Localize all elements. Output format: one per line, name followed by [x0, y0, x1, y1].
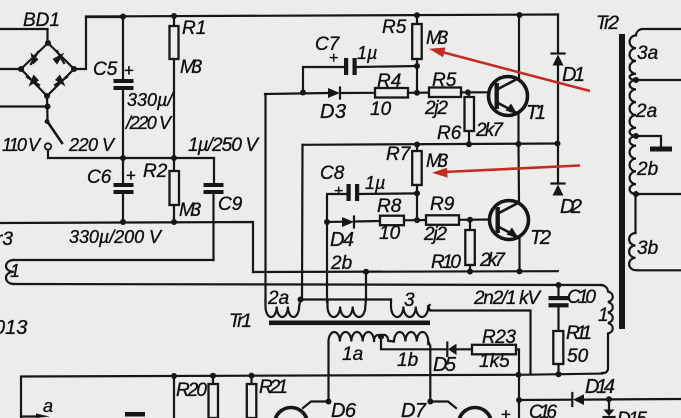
svg-text:C9: C9	[218, 194, 243, 215]
wire: bridge right node up to + rail	[74, 17, 122, 69]
osc1 emitter rail	[303, 144, 558, 145]
wire: tap to winding 2b right end	[365, 272, 367, 300]
resistor R5 M3 (vertical)	[416, 15, 418, 24]
svg-text:1µ/250 V: 1µ/250 V	[188, 135, 260, 156]
capacitor C6 330u/200V	[122, 158, 124, 183]
diode D4	[342, 217, 354, 227]
wire D3 to R4	[340, 92, 375, 94]
svg-text:C6: C6	[87, 167, 112, 188]
switch 110V/220V lever	[47, 121, 62, 143]
resistor R4 10	[375, 88, 408, 98]
wire: AC input mid from Tr3 to bridge left node	[0, 68, 21, 70]
svg-text:R11: R11	[566, 323, 592, 344]
svg-text:C10: C10	[567, 287, 596, 308]
osc2 emitter rail	[253, 270, 558, 273]
resistor R23 1k5	[472, 345, 516, 355]
oscillator 2: capacitor C8 1u	[327, 194, 347, 222]
svg-text:D7: D7	[401, 400, 427, 418]
svg-text:R21: R21	[259, 377, 288, 398]
resistor R1 M3	[171, 13, 177, 19]
svg-text:M3: M3	[179, 200, 201, 221]
svg-text:C5: C5	[93, 59, 118, 80]
diode D3	[328, 88, 340, 98]
resistor R2 M3	[173, 158, 175, 171]
svg-text:2k7: 2k7	[479, 250, 506, 271]
transistor (bottom mid, cut)	[459, 408, 492, 418]
svg-text:r3: r3	[0, 229, 13, 250]
svg-text:R7: R7	[386, 144, 412, 165]
svg-text:330µ/: 330µ/	[127, 90, 174, 110]
transformer Tr2 core	[619, 34, 625, 329]
resistor R9 2j2	[426, 215, 459, 225]
wire to diode D4	[327, 221, 342, 224]
svg-text:D2: D2	[560, 196, 582, 218]
wire: switch to C6/R2 rail	[48, 150, 214, 158]
resistor R11 50	[553, 331, 563, 364]
capacitor C16	[518, 375, 520, 418]
wire: winding 3 to bottom rail	[428, 306, 530, 374]
svg-text:Tr2: Tr2	[596, 13, 619, 34]
svg-text:1a: 1a	[342, 344, 363, 365]
diode D14	[571, 393, 573, 406]
svg-text:D5: D5	[433, 354, 457, 376]
winding 1 left curl	[6, 260, 14, 284]
wire down to 3b	[634, 194, 636, 233]
svg-text:1: 1	[598, 305, 609, 326]
node: R4/R5/C7 junction	[414, 90, 420, 96]
Tr2 winding 2a	[630, 80, 636, 136]
svg-text:220 V: 220 V	[68, 135, 116, 155]
node: C6 bottom on lower rail	[120, 219, 126, 225]
svg-text:a: a	[43, 396, 53, 416]
svg-text:D4: D4	[330, 229, 354, 251]
svg-text:1: 1	[10, 261, 20, 281]
wire: bridge bottom node to switch	[46, 96, 49, 120]
svg-text:/220 V: /220 V	[124, 113, 173, 133]
bridge rectifier BD1	[18, 40, 77, 99]
node on top rail for R5	[414, 12, 420, 18]
ground	[650, 147, 672, 152]
svg-text:D15: D15	[617, 409, 647, 418]
svg-text:2k7: 2k7	[475, 120, 504, 141]
wire: T2 emitter down	[518, 237, 520, 272]
switch contact circle	[45, 143, 51, 149]
svg-text:+: +	[124, 61, 134, 80]
node: D3/C7 junction	[300, 90, 306, 96]
winding 1 of Tr2 hairpin top edge	[13, 259, 214, 261]
svg-text:Tr1: Tr1	[229, 311, 252, 332]
node: 2a right / link junction	[298, 297, 304, 303]
node: C8 left / D4 junction	[324, 219, 330, 225]
link wire 2a-2b-3	[301, 298, 392, 300]
svg-text:2b: 2b	[636, 159, 658, 180]
wire: T2 collector up to osc1 emitter rail	[517, 144, 520, 202]
svg-text:+: +	[329, 50, 338, 67]
svg-text:1µ: 1µ	[357, 43, 377, 63]
svg-text:D14: D14	[585, 376, 615, 398]
wire: T1 collector to + rail	[518, 15, 520, 78]
svg-text:M3: M3	[180, 57, 202, 78]
resistor R6 2k7	[468, 92, 470, 97]
svg-text:D1: D1	[562, 64, 585, 86]
diode D5	[446, 343, 448, 357]
Tr1 winding 1b	[381, 332, 428, 344]
red arrow 1	[429, 48, 590, 92]
svg-text:R23: R23	[482, 327, 516, 348]
svg-text:50: 50	[567, 346, 589, 367]
svg-text:R9: R9	[430, 194, 455, 215]
wire: 2b winding up to D4 node	[326, 222, 328, 302]
transistor T1	[489, 77, 528, 116]
svg-text:3: 3	[404, 290, 415, 311]
svg-text:2a: 2a	[267, 288, 289, 309]
svg-text:R8: R8	[377, 196, 402, 217]
svg-text:2j2: 2j2	[423, 224, 447, 245]
wire: T1 emitter down to osc1 emitter rail	[517, 113, 519, 144]
wire: 1b right end down	[428, 342, 430, 402]
transistor T2	[490, 201, 529, 240]
svg-text:R5: R5	[432, 70, 457, 91]
svg-text:3b: 3b	[637, 238, 658, 259]
Tr2 winding 3a	[630, 29, 681, 80]
svg-text:D6: D6	[331, 400, 357, 418]
node: T2 base / R10 top	[467, 217, 473, 223]
wire: feedback from winding 2a up to D3	[264, 94, 266, 302]
svg-text:2a: 2a	[635, 101, 657, 122]
node + wire: unknown drop at x174	[171, 373, 177, 379]
capacitor C10 2n2/1kV	[556, 282, 562, 288]
svg-text:+: +	[501, 405, 511, 418]
svg-text:R10: R10	[431, 252, 461, 273]
resistor R21	[249, 373, 255, 379]
wire: rail corner down to winding 2a right	[301, 145, 304, 299]
svg-text:D3: D3	[320, 101, 346, 123]
resistor R10 2k7	[469, 220, 471, 230]
resistor R7 M3 (vertical)	[416, 145, 418, 152]
node: C5 top	[120, 14, 126, 20]
svg-text:10: 10	[379, 223, 401, 244]
svg-text:R5: R5	[382, 17, 407, 38]
svg-text:C8: C8	[320, 163, 345, 184]
svg-text:013: 013	[0, 317, 27, 339]
node: bridge bottom junction	[45, 104, 51, 110]
svg-text:R6: R6	[437, 123, 462, 144]
svg-text:R2: R2	[143, 161, 168, 182]
node: R2 bottom	[171, 219, 177, 225]
Tr2 winding 3b	[629, 233, 681, 270]
svg-text:3a: 3a	[637, 43, 658, 64]
capacitor C9 1u/250V	[213, 158, 215, 183]
red arrow 2	[432, 166, 580, 178]
capacitor C5 330u/220V	[122, 17, 124, 79]
node: centre tap to ground	[633, 133, 639, 139]
svg-text:M3: M3	[426, 28, 448, 49]
svg-text:10: 10	[370, 99, 392, 120]
partial capacitor plate bottom left	[125, 412, 145, 417]
svg-text:2n2/1 kV: 2n2/1 kV	[473, 288, 542, 309]
svg-text:330µ/200 V: 330µ/200 V	[69, 227, 163, 247]
oscillator 1: capacitor C7 1u	[303, 67, 344, 92]
bottom rail	[21, 374, 602, 418]
wire: C7 node down	[416, 66, 418, 92]
wire D5 to R23	[457, 348, 473, 350]
wire: D3 line	[265, 93, 328, 94]
node: 1a/1b junction	[378, 334, 384, 340]
winding 1 right coil (Tr2 primary)	[601, 285, 613, 373]
transformer Tr1 core	[269, 321, 430, 326]
node: 2b bottom tap	[633, 191, 639, 197]
Tr1 winding 2b	[328, 300, 367, 318]
wire: AC input top from Tr3	[0, 29, 48, 42]
wire: R23 to bottom rail junction	[516, 350, 519, 375]
diode D15 (cut)	[608, 399, 610, 409]
transistor (bottom left, cut)	[275, 408, 308, 418]
node: R1/R2/C9 junction	[171, 155, 177, 161]
wire: AC input bottom from Tr3	[0, 105, 47, 107]
svg-text:+: +	[126, 166, 136, 185]
svg-text:+: +	[334, 183, 343, 200]
node: T1 base / R6 top	[465, 89, 471, 95]
svg-text:R1: R1	[182, 18, 206, 39]
node: 3a/2a tap	[633, 77, 639, 83]
svg-text:1b: 1b	[397, 350, 418, 371]
svg-text:110 V: 110 V	[2, 135, 42, 155]
node: R8/R9/R7 junction	[414, 217, 420, 223]
svg-text:1µ: 1µ	[365, 173, 385, 193]
svg-text:R20: R20	[176, 380, 207, 401]
resistor R5 2j2 (horizontal)	[429, 88, 461, 98]
Tr1 winding 3	[391, 300, 430, 318]
winding 1 long bottom wire to C10 box	[13, 284, 601, 285]
Tr1 winding 1a	[327, 344, 329, 402]
wire D4 to R8	[354, 220, 380, 223]
+ rail top	[86, 15, 558, 17]
diode D2	[552, 182, 565, 184]
node: C5/C6 junction on switch rail	[120, 155, 126, 161]
Tr2 winding 2b	[630, 136, 636, 194]
svg-text:R4: R4	[377, 71, 401, 92]
wire: D14 output line	[519, 399, 681, 400]
wire: lower rail to corner x253	[0, 222, 253, 272]
resistor R8 10	[380, 216, 404, 226]
svg-text:C16: C16	[529, 402, 557, 418]
wire: 1a/1b tap to D5	[381, 337, 447, 350]
resistor R20	[210, 373, 216, 379]
svg-text:T1: T1	[526, 102, 546, 124]
diode D1	[557, 15, 559, 54]
Tr1 winding 2a	[266, 300, 301, 318]
svg-text:BD1: BD1	[23, 10, 60, 31]
svg-text:2j2: 2j2	[424, 98, 448, 119]
svg-text:T2: T2	[530, 227, 551, 249]
svg-text:1k5: 1k5	[479, 351, 510, 372]
